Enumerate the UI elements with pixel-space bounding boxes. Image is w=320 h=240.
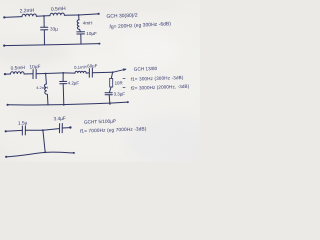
svg-text:4mH: 4mH — [83, 21, 93, 26]
svg-text:2.2mH: 2.2mH — [20, 8, 35, 15]
svg-text:3.4µF: 3.4µF — [53, 116, 66, 123]
wire to L3 — [5, 73, 11, 75]
node bottom C4 — [63, 104, 65, 106]
wire C2 to bottom rail — [80, 34, 82, 44]
svg-text:4.2mH: 4.2mH — [36, 85, 48, 90]
wire C7 to node6 — [26, 129, 43, 131]
capacitor C7 1.5u series — [21, 126, 23, 135]
wire rail n4 to L4 — [63, 72, 75, 74]
node bottom C6 — [109, 103, 111, 105]
svg-text:0.1mH: 0.1mH — [74, 64, 87, 70]
svg-text:10R: 10R — [115, 81, 123, 86]
svg-text:10µF: 10µF — [29, 64, 40, 71]
capacitor C6 3.3uF — [105, 92, 112, 94]
wire C6 to bottom rail — [108, 95, 111, 104]
inductor 4mH vertical coil — [77, 20, 80, 30]
wire n6 to C8 — [43, 129, 59, 131]
wire L2 to node2 — [64, 14, 78, 16]
node output terminal top — [98, 13, 100, 15]
capacitor C8 3.4uF series — [59, 124, 61, 133]
wire C5 to node5 — [92, 71, 112, 73]
wire mid bottom rail — [8, 102, 128, 105]
node: input bottom circuit — [5, 130, 7, 132]
node junction n6 — [42, 129, 44, 131]
svg-text:68µF: 68µF — [87, 63, 98, 69]
node: bottom rail left terminal — [5, 156, 7, 158]
wire node2 to output — [79, 14, 99, 15]
wire C1 to bottom rail — [43, 30, 45, 45]
wire node5 down to R1 — [111, 72, 112, 78]
wire bottom rail — [4, 44, 99, 46]
svg-text:GCH 30(80)/2: GCH 30(80)/2 — [106, 13, 138, 20]
wire 4.2mH coil to bottom — [46, 94, 49, 105]
wire rail n3 to n4 — [46, 72, 64, 75]
capacitor C4 4.2uF shunt — [60, 80, 67, 82]
wire L1 to node1 — [36, 15, 50, 18]
inductor 4.2mH vertical — [44, 84, 47, 94]
svg-text:GCH 13/80: GCH 13/80 — [134, 66, 158, 72]
node junction n2 — [78, 14, 80, 16]
wire shunt branch n6 to bottom rail — [43, 130, 45, 152]
capacitor C1 33u shunt — [41, 26, 48, 28]
wire input to C7 — [6, 129, 22, 132]
node output bottom circuit — [69, 126, 71, 128]
wire node2 down — [78, 15, 80, 20]
node bottom junction — [44, 151, 46, 153]
wire C3 to node3 — [36, 73, 45, 75]
wire C8 to output — [62, 127, 70, 129]
node: input top terminal — [3, 16, 5, 18]
svg-text:0.5mH: 0.5mH — [51, 6, 66, 13]
wire coil to C2 — [79, 29, 82, 31]
inductor L4 0.1mH — [75, 71, 86, 73]
capacitor C5 68uF series — [88, 69, 90, 78]
paper background — [0, 0, 200, 162]
svg-text:33µ: 33µ — [50, 27, 58, 32]
svg-text:1.5µ: 1.5µ — [18, 120, 28, 126]
node: input bottom terminal — [3, 45, 5, 47]
node: input mid terminal — [4, 73, 6, 75]
wire C4 to bottom rail — [62, 84, 65, 105]
wire n4 down to C4 — [62, 73, 64, 81]
resistor R1 10R — [110, 78, 113, 87]
node junction n1 — [43, 15, 45, 17]
wire node5 to mid output arrow — [113, 69, 126, 72]
node junction n5 — [112, 71, 114, 73]
wire L4 to C5 — [86, 72, 89, 74]
inductor L3 0.5mH — [11, 72, 25, 74]
capacitor C2 10uF — [77, 31, 85, 33]
node bottom rail output — [98, 43, 100, 45]
inductor L2 0.5mH coil — [50, 13, 64, 16]
node junction n4 — [62, 72, 64, 74]
node bottom rail right end — [73, 152, 75, 154]
svg-text:10µF: 10µF — [86, 31, 97, 36]
tick bullet f2 — [123, 86, 125, 88]
wire R1 to C6 — [109, 87, 111, 93]
node mid bottom rail end — [127, 101, 129, 103]
wire node1 down to C1 — [43, 16, 45, 27]
node junction n3 — [45, 73, 47, 75]
svg-text:3.3µF: 3.3µF — [114, 92, 126, 97]
svg-text:0.5mH: 0.5mH — [11, 65, 26, 72]
wire node3 down — [45, 74, 48, 85]
inductor L1 2.2mH coil — [22, 14, 36, 17]
svg-text:4.2µF: 4.2µF — [68, 80, 80, 85]
capacitor C3 10uF series — [32, 70, 34, 79]
wire input to L1 — [4, 16, 22, 19]
tick bullet f1 — [123, 77, 125, 79]
wire bottom rail of bottom circuit — [6, 152, 73, 157]
wire L3 to C3 — [24, 73, 33, 75]
node: input mid bottom terminal — [7, 104, 9, 106]
